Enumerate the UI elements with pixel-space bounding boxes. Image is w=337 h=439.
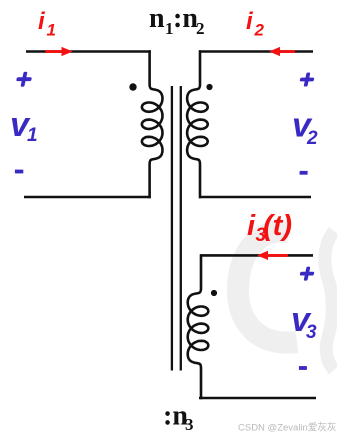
watermark big C <box>238 231 297 342</box>
svg-text:3: 3 <box>185 415 194 434</box>
svg-text:1: 1 <box>27 125 38 146</box>
svg-text::n: :n <box>173 3 198 34</box>
wire: top-right horizontal <box>199 50 313 53</box>
minus sign port 2 <box>300 171 308 175</box>
core line left <box>171 86 173 371</box>
wire: top horizontal of winding 3 <box>200 254 313 257</box>
current arrow i3 <box>257 251 288 260</box>
winding L2 (right coil) <box>187 50 208 198</box>
svg-text:3: 3 <box>306 322 317 343</box>
watermark letter fragment right edge <box>325 231 334 370</box>
winding L3 (bottom coil) <box>188 254 209 399</box>
svg-text:2: 2 <box>254 21 265 40</box>
wire: bottom-left horizontal <box>24 196 151 199</box>
wire: bottom-right horizontal <box>199 196 311 199</box>
plus sign port 3 <box>299 267 316 281</box>
plus sign port 2 <box>299 73 316 87</box>
dot winding 1 <box>129 83 136 90</box>
wire: bottom horizontal of winding 3 <box>199 397 316 400</box>
dot winding 3 <box>211 290 217 296</box>
svg-text:1: 1 <box>47 21 56 40</box>
svg-text:CSDN @Zevalin爱灰灰: CSDN @Zevalin爱灰灰 <box>238 422 336 434</box>
winding L1 (left coil) <box>142 50 163 198</box>
dot winding 2 <box>206 84 212 90</box>
minus sign port 1 <box>15 170 23 174</box>
plus sign port 1 <box>15 72 33 87</box>
svg-text:n: n <box>149 3 165 34</box>
current arrow i1 <box>45 47 72 56</box>
svg-text:2: 2 <box>196 19 205 38</box>
svg-text:(t): (t) <box>263 210 292 242</box>
current arrow i2 <box>269 47 295 56</box>
core line right <box>180 86 182 371</box>
minus sign port 3 <box>299 366 307 370</box>
svg-text:2: 2 <box>306 128 318 149</box>
wire: top-left horizontal <box>26 50 151 53</box>
